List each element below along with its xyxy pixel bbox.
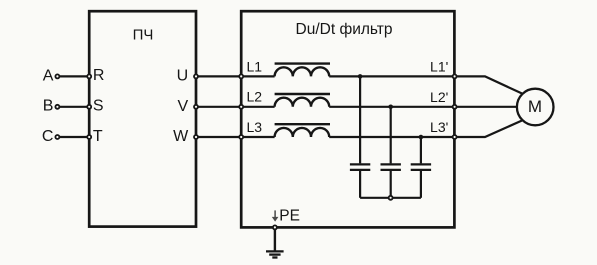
junction C1 on L1: [358, 74, 363, 79]
terminal B: [55, 105, 59, 109]
node S: [87, 105, 91, 109]
capacitor common rail: [360, 197, 421, 199]
node L3: [239, 135, 243, 139]
capacitor C1: [359, 76, 361, 163]
Du/Dt filter box: [241, 11, 454, 227]
wire L3' to motor: [455, 121, 522, 138]
wire inductor L1 to L1': [329, 75, 454, 77]
svg-text:ПЧ: ПЧ: [133, 26, 154, 43]
svg-text:M: M: [528, 97, 542, 116]
node PE: [273, 225, 277, 229]
wire PE to ground: [274, 230, 276, 251]
svg-text:L3': L3': [430, 119, 448, 135]
wire L3 to inductor: [241, 136, 274, 138]
motor M: [517, 89, 554, 126]
node R: [87, 74, 91, 78]
node V: [194, 105, 198, 109]
svg-text:W: W: [173, 128, 189, 145]
svg-text:PE: PE: [279, 207, 300, 224]
svg-text:V: V: [178, 98, 189, 115]
capacitor C2: [390, 107, 392, 164]
inductor L3: [275, 128, 330, 137]
svg-text:L1': L1': [430, 59, 448, 75]
node U: [194, 74, 198, 78]
wire B to S: [60, 106, 90, 108]
wire L2' to motor: [455, 106, 518, 108]
wire L2 to inductor: [241, 106, 274, 108]
inductor L1 core bar: [275, 62, 330, 64]
inductor L3 core bar: [275, 123, 330, 125]
node W: [194, 135, 198, 139]
wire L1' to motor: [455, 76, 522, 93]
wire inductor L2 to L2': [329, 106, 454, 108]
node L2': [453, 105, 457, 109]
terminal A: [55, 74, 59, 78]
capacitor C3: [420, 137, 422, 163]
svg-text:U: U: [177, 68, 189, 85]
junction C3 on L3: [419, 135, 424, 140]
wire L1 to inductor: [241, 75, 274, 77]
node L3': [453, 135, 457, 139]
node T: [87, 135, 91, 139]
inductor L1: [275, 67, 330, 76]
node L1: [239, 74, 243, 78]
node capacitor star point: [389, 196, 393, 200]
wire W to L3: [196, 136, 241, 138]
frequency converter box ПЧ: [89, 11, 196, 226]
PE arrow: [274, 210, 276, 217]
junction C2 on L2: [388, 105, 393, 110]
svg-text:R: R: [93, 67, 105, 84]
wire V to L2: [196, 106, 241, 108]
inductor L2 core bar: [275, 93, 330, 95]
svg-text:Du/Dt фильтр: Du/Dt фильтр: [296, 21, 393, 38]
node L1': [453, 74, 457, 78]
svg-text:L2: L2: [247, 89, 263, 105]
node L2: [239, 105, 243, 109]
wire A to R: [60, 75, 90, 77]
terminal C: [55, 135, 59, 139]
inductor L2: [275, 98, 330, 107]
svg-text:B: B: [43, 98, 54, 115]
wire U to L1: [196, 75, 241, 77]
svg-text:T: T: [93, 128, 103, 145]
svg-text:L3: L3: [247, 119, 263, 135]
svg-text:S: S: [93, 98, 104, 115]
wire inductor L3 to L3': [329, 136, 454, 138]
svg-text:A: A: [43, 67, 54, 84]
svg-text:L1: L1: [247, 58, 263, 74]
wire C to T: [60, 136, 90, 138]
svg-text:C: C: [42, 128, 54, 145]
svg-text:L2': L2': [430, 89, 448, 105]
ground: [266, 250, 284, 252]
